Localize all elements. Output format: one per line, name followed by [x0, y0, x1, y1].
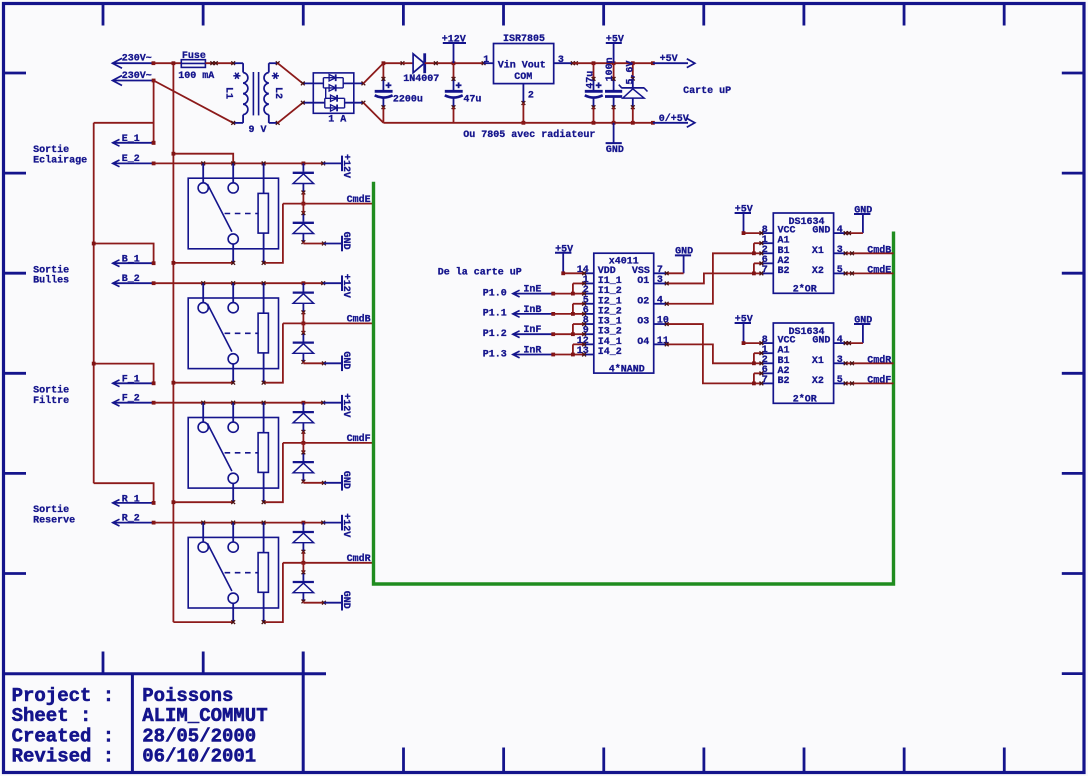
wire O4 to OR2 B1 — [665, 342, 754, 363]
fuse F1 100 mA — [178, 51, 214, 82]
net label 230V~ (top) — [113, 54, 156, 69]
wire OR#1 input pairs — [752, 241, 763, 275]
capacitor C4 100n — [605, 57, 622, 122]
zener diode Z1 5,6V — [619, 61, 648, 123]
svg-text:P1.0: P1.0 — [483, 288, 507, 299]
wire x4011 input pairs — [571, 282, 586, 357]
diode relay4 — [293, 570, 314, 603]
wire elbow to R_1 — [94, 483, 154, 503]
title block — [2, 652, 326, 772]
svg-text:Reserve: Reserve — [33, 515, 75, 526]
svg-text:4: 4 — [837, 225, 843, 236]
wire zener to CmdE — [302, 193, 306, 206]
ground GND x4011 — [665, 247, 693, 276]
svg-text:47u: 47u — [463, 95, 481, 106]
svg-text:1 A: 1 A — [328, 115, 346, 126]
svg-text:Filtre: Filtre — [33, 395, 69, 407]
svg-text:InE: InE — [523, 285, 541, 296]
svg-text:2200u: 2200u — [393, 95, 423, 106]
svg-text:Carte uP: Carte uP — [683, 86, 731, 97]
svg-text:2: 2 — [528, 90, 534, 101]
power +5V x4011 — [555, 244, 586, 275]
net label CmdB — [283, 314, 374, 326]
power +12V relay3 — [323, 393, 351, 417]
wire relay4 top — [154, 521, 326, 525]
bus wire (green) — [374, 182, 894, 584]
wire elbow to B_1 — [92, 242, 154, 264]
wire to left distribution — [94, 122, 154, 124]
svg-text:Sortie: Sortie — [33, 144, 69, 156]
wire zener to CmdB — [302, 312, 306, 325]
note Carte uP — [683, 86, 731, 97]
wire relay4 output — [173, 620, 235, 624]
note Ou 7805 avec radiateur — [463, 129, 595, 141]
svg-text:CmdE: CmdE — [867, 264, 891, 276]
transformer value 9 V — [249, 125, 267, 136]
net label +5V output — [653, 54, 695, 68]
svg-text:CmdB: CmdB — [347, 314, 371, 326]
wire secondary bottom — [278, 103, 303, 123]
svg-text:O3: O3 — [637, 317, 649, 328]
net label CmdE — [283, 194, 374, 206]
power +5V OR#2 — [735, 315, 764, 346]
svg-text:InF: InF — [523, 325, 541, 336]
svg-text:GND: GND — [812, 226, 830, 237]
capacitor C3 47u — [585, 63, 603, 123]
wire relay3 output — [172, 500, 236, 504]
svg-text:P1.1: P1.1 — [483, 309, 507, 320]
gate IC x4011 4*NAND — [577, 253, 669, 375]
capacitor C1 2200u — [375, 63, 423, 123]
svg-text:+12V: +12V — [340, 513, 351, 537]
note De la carte uP — [438, 267, 522, 279]
ground relay1 — [303, 232, 350, 252]
svg-text:L2: L2 — [272, 87, 283, 99]
wire relay3 top — [154, 401, 326, 405]
zener diode relay2 — [293, 283, 314, 314]
svg-text:X1: X1 — [812, 246, 824, 257]
zener diode relay1 — [293, 163, 314, 194]
svg-text:+12V: +12V — [340, 154, 351, 178]
wire relay1 top — [154, 162, 326, 166]
svg-text:X1: X1 — [812, 356, 824, 367]
wire phase1 to fuse — [154, 62, 182, 64]
bridge rectifier B1 — [301, 73, 365, 113]
power +12V relay4 — [323, 513, 351, 537]
net label CmdE — [844, 264, 894, 276]
svg-text:1N4007: 1N4007 — [403, 74, 439, 85]
svg-text:Sheet :: Sheet : — [12, 705, 92, 727]
note Sortie Filtre — [33, 384, 69, 406]
regulator U1 ISR7805 — [483, 34, 578, 105]
svg-text:2*OR: 2*OR — [793, 283, 817, 295]
net label F_1 — [113, 375, 156, 387]
wire relay1 output — [172, 261, 236, 265]
wire relay2 top — [154, 281, 326, 285]
net label CmdF — [283, 433, 374, 445]
note Sortie Bulles — [33, 264, 69, 286]
svg-text:CmdF: CmdF — [867, 374, 891, 386]
svg-text:InB: InB — [523, 305, 541, 316]
wire CmdR junction to diode — [302, 563, 304, 573]
svg-text:GND: GND — [606, 145, 624, 156]
wire O1 to OR1 B2 — [665, 273, 754, 285]
net label E_2 — [113, 154, 156, 167]
svg-text:O1: O1 — [637, 276, 649, 287]
power +12V relay2 — [323, 274, 351, 298]
diode D1 1N4007 — [403, 53, 439, 85]
ground relay2 — [303, 351, 350, 371]
gate IC DS1634 2*OR #2 — [761, 323, 845, 405]
svg-text:+12V: +12V — [340, 393, 351, 417]
net label B_2 — [113, 274, 156, 287]
wire secondary top — [278, 63, 303, 83]
wire relay1 common elbow — [172, 152, 234, 164]
svg-text:P1.2: P1.2 — [483, 329, 507, 340]
net label InR — [483, 346, 555, 361]
net label B_1 — [113, 255, 156, 267]
svg-text:GND: GND — [340, 471, 351, 489]
svg-text:GND: GND — [340, 232, 351, 250]
wire phase2 down to E_1 — [152, 81, 156, 145]
svg-text:Bulles: Bulles — [33, 275, 69, 287]
wire InF to gate — [553, 333, 573, 335]
net label 0/+5V output — [653, 113, 695, 127]
ground GND OR#1 — [844, 206, 873, 236]
svg-text:Sortie: Sortie — [33, 504, 69, 516]
diode relay1 — [293, 211, 314, 244]
svg-text:+12V: +12V — [340, 274, 351, 298]
zener diode relay3 — [293, 403, 314, 434]
svg-text:Sortie: Sortie — [33, 264, 69, 276]
zener diode relay4 — [293, 523, 314, 554]
svg-text:P1.3: P1.3 — [483, 349, 507, 360]
svg-text:0/+5V: 0/+5V — [659, 113, 689, 125]
svg-text:GND: GND — [812, 336, 830, 347]
diode relay2 — [293, 331, 314, 364]
net label 230V~ (bottom) — [113, 71, 156, 85]
svg-text:5,6V: 5,6V — [625, 61, 636, 85]
net label InE — [483, 285, 555, 300]
svg-text:47u: 47u — [585, 71, 596, 89]
svg-text:3: 3 — [657, 275, 663, 286]
svg-text:4: 4 — [837, 335, 843, 346]
wire OR#2 input pairs — [752, 351, 763, 385]
net label CmdR — [844, 354, 894, 366]
net label InF — [483, 325, 555, 340]
wire InE to gate — [553, 293, 573, 295]
svg-text:5: 5 — [837, 265, 843, 276]
wire CmdB junction to diode — [302, 323, 304, 333]
svg-text:+5V: +5V — [660, 54, 678, 65]
wire diode to regulator — [425, 61, 486, 65]
ground GND OR#2 — [844, 316, 873, 346]
wire left vertical distribution — [93, 123, 95, 483]
svg-text:De la carte uP: De la carte uP — [438, 267, 522, 279]
svg-text:Fuse: Fuse — [182, 51, 206, 62]
net label InB — [483, 305, 555, 320]
wire phase2 diagonal to transformer — [154, 81, 234, 123]
wire elbow to F_1 — [92, 362, 154, 384]
wire relay3 coil elbow — [262, 443, 283, 504]
svg-text:CmdR: CmdR — [347, 553, 371, 565]
relay K2 — [188, 283, 278, 383]
relay K1 — [188, 163, 278, 263]
power +5V OR#1 — [735, 205, 764, 236]
wire relay1 coil elbow — [262, 204, 283, 265]
relay K4 — [188, 523, 278, 623]
title block labels — [12, 685, 115, 768]
wire fuse to transformer — [205, 61, 233, 65]
wire prefuse vertical distribution — [172, 61, 176, 622]
wire bridge minus diagonal — [363, 103, 383, 123]
note Sortie Eclairage — [33, 144, 87, 166]
wire zener to CmdR — [302, 552, 306, 565]
wire O3 to OR2 B2 — [665, 322, 754, 383]
svg-text:Vin Vout: Vin Vout — [498, 60, 546, 72]
net label E_1 — [113, 134, 156, 146]
wire CmdF junction to diode — [302, 443, 304, 453]
gate IC DS1634 2*OR #1 — [761, 213, 845, 295]
svg-text:Project :: Project : — [12, 685, 115, 707]
svg-text:GND: GND — [340, 351, 351, 369]
wire 0V rail — [383, 121, 654, 125]
svg-text:28/05/2000: 28/05/2000 — [142, 725, 256, 747]
note Sortie Reserve — [33, 504, 75, 526]
svg-text:I4_2: I4_2 — [598, 347, 622, 358]
wire relay4 coil elbow — [262, 563, 283, 624]
net label CmdR — [283, 553, 374, 565]
svg-text:3: 3 — [837, 355, 843, 366]
svg-text:GND: GND — [340, 591, 351, 609]
svg-text:100 mA: 100 mA — [178, 71, 214, 82]
wire O2 to OR1 B1 — [665, 253, 754, 305]
capacitor C2 47u — [445, 63, 482, 123]
wire InR to gate — [553, 354, 573, 356]
ground relay3 — [303, 471, 350, 491]
diode relay3 — [293, 451, 314, 484]
svg-text:X2: X2 — [812, 266, 824, 277]
wire bridge plus diagonal — [363, 63, 383, 83]
svg-text:O4: O4 — [637, 337, 649, 348]
wire relay2 output — [172, 381, 236, 385]
wire relay2 coil elbow — [262, 323, 283, 384]
wire COM to 0V rail — [522, 103, 526, 125]
svg-text:CmdE: CmdE — [347, 194, 371, 206]
svg-text:Ou 7805 avec radiateur: Ou 7805 avec radiateur — [463, 129, 595, 141]
svg-text:5: 5 — [837, 375, 843, 386]
power +5V (top) — [606, 34, 624, 63]
wire zener to CmdF — [302, 432, 306, 445]
svg-text:9 V: 9 V — [249, 125, 267, 136]
wire DC+ rail — [382, 61, 414, 65]
net label R_1 — [113, 494, 156, 506]
net label R_2 — [113, 513, 156, 526]
svg-text:X2: X2 — [812, 376, 824, 387]
wire InB to gate — [553, 313, 573, 315]
svg-text:Created :: Created : — [12, 725, 115, 747]
ground relay4 — [303, 591, 350, 611]
svg-text:COM: COM — [514, 72, 532, 83]
net label F_2 — [113, 394, 156, 407]
bridge value 1 A — [328, 115, 346, 126]
svg-text:Sortie: Sortie — [33, 384, 69, 396]
svg-text:CmdR: CmdR — [867, 354, 891, 366]
svg-text:4*NAND: 4*NAND — [609, 363, 645, 375]
wire regulator output rail — [573, 61, 655, 65]
svg-text:CmdF: CmdF — [347, 433, 371, 445]
svg-text:1: 1 — [483, 55, 489, 66]
svg-text:B2: B2 — [778, 266, 790, 277]
svg-text:ISR7805: ISR7805 — [503, 34, 545, 45]
svg-text:3: 3 — [837, 245, 843, 256]
svg-text:B2: B2 — [778, 376, 790, 387]
relay K3 — [188, 403, 278, 503]
svg-text:3: 3 — [558, 55, 564, 66]
svg-text:InR: InR — [523, 346, 541, 357]
transformer TR1 — [223, 61, 283, 125]
svg-text:O2: O2 — [637, 296, 649, 307]
wire CmdE junction to diode — [302, 204, 304, 214]
svg-text:Eclairage: Eclairage — [33, 154, 87, 166]
svg-text:Poissons: Poissons — [142, 685, 233, 707]
svg-text:2*OR: 2*OR — [793, 393, 817, 405]
svg-text:L1: L1 — [223, 87, 234, 99]
net label CmdB — [844, 244, 894, 256]
net label CmdF — [844, 374, 894, 386]
svg-text:ALIM_COMMUT: ALIM_COMMUT — [142, 705, 267, 727]
svg-text:4: 4 — [657, 295, 663, 306]
power +12V relay1 — [323, 154, 351, 178]
power +12V — [442, 34, 466, 63]
svg-text:CmdB: CmdB — [867, 244, 891, 256]
svg-text:06/10/2001: 06/10/2001 — [142, 746, 256, 768]
ground GND (psu) — [606, 123, 624, 156]
title block values — [142, 685, 267, 768]
svg-text:Revised :: Revised : — [12, 746, 115, 768]
